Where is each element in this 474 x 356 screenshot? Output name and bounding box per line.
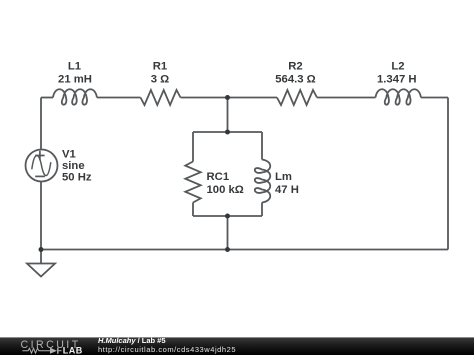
wire R2 to L2: [317, 97, 376, 99]
svg-text:21 mH: 21 mH: [58, 74, 92, 86]
junction node parallel top: [225, 130, 230, 135]
junction node top wire / branch: [225, 95, 230, 100]
wire top node to parallel top bar: [227, 98, 229, 133]
wire parallel bottom bar: [193, 215, 262, 217]
svg-text:47 H: 47 H: [275, 184, 299, 196]
junction node bottom wire / branch: [225, 247, 230, 252]
inductor Lm: [255, 160, 270, 203]
wire L1 to R1: [97, 97, 141, 99]
svg-text:V1: V1: [62, 149, 76, 161]
svg-text:100 kΩ: 100 kΩ: [207, 184, 244, 196]
resistor R2: [277, 90, 317, 105]
svg-text:sine: sine: [62, 160, 85, 172]
ground: [27, 250, 55, 277]
svg-text:Lm: Lm: [275, 171, 292, 183]
wire top bar to Lm: [261, 132, 263, 160]
svg-text:50 Hz: 50 Hz: [62, 172, 92, 184]
label L2 value 1.347 H: [377, 61, 417, 86]
svg-text:RC1: RC1: [207, 171, 230, 183]
svg-text:L1: L1: [68, 61, 81, 73]
label R2 value 564.3 Ω: [275, 61, 315, 86]
wire top wire to V1: [40, 98, 42, 150]
inductor L2: [376, 89, 421, 104]
junction node ground: [39, 247, 44, 252]
svg-text:564.3 Ω: 564.3 Ω: [275, 74, 315, 86]
svg-text:R1: R1: [153, 61, 167, 73]
resistor RC1: [185, 162, 200, 203]
svg-text:LAB: LAB: [63, 345, 83, 355]
inductor L1: [53, 89, 97, 104]
label L1 value 21 mH: [58, 61, 92, 86]
wire right vertical: [447, 98, 449, 250]
wire V1 to ground node: [40, 182, 42, 250]
wire R1 to R2: [181, 97, 278, 99]
wire parallel top bar: [193, 131, 262, 133]
svg-text:3 Ω: 3 Ω: [151, 74, 169, 86]
wire RC1 to bottom bar: [192, 203, 194, 217]
label R1 value 3 Ω: [151, 61, 169, 86]
label Lm value 47 H: [275, 171, 299, 196]
wire L2 to right corner: [421, 97, 448, 99]
junction node parallel bottom: [225, 214, 230, 219]
footer bar: [0, 337, 474, 355]
wire top bar to RC1: [192, 132, 194, 162]
svg-text:L2: L2: [391, 61, 404, 73]
wire Lm to bottom bar: [261, 203, 263, 217]
label V1 sine 50 Hz: [62, 149, 92, 184]
svg-text:R2: R2: [288, 61, 302, 73]
label RC1 value 100 kΩ: [207, 171, 244, 196]
wire top-left segment: [41, 97, 53, 99]
voltage source V1: [26, 150, 58, 182]
wire bottom horizontal: [41, 249, 448, 251]
resistor R1: [141, 90, 181, 105]
svg-text:1.347 H: 1.347 H: [377, 74, 417, 86]
wire bottom bar to bottom wire: [227, 216, 229, 250]
